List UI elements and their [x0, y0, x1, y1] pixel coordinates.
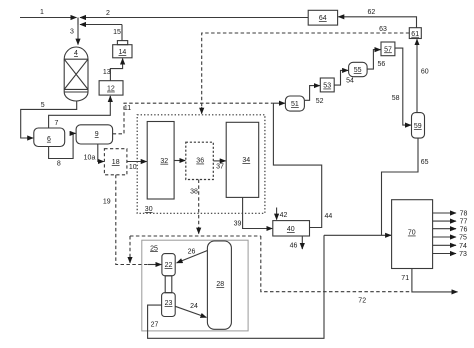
unit 34 [226, 122, 259, 197]
unit 55 [349, 62, 368, 76]
unit 53 [320, 78, 334, 92]
unit 70 [392, 200, 433, 269]
wire stream 8 [49, 133, 74, 158]
svg-text:13: 13 [103, 69, 111, 76]
svg-text:46: 46 [290, 242, 298, 249]
wire stream 78 [433, 212, 456, 214]
wire stream 7 [49, 96, 111, 128]
svg-text:44: 44 [325, 213, 333, 220]
svg-text:10a: 10a [84, 155, 96, 162]
svg-text:70: 70 [408, 230, 416, 237]
svg-text:8: 8 [57, 160, 61, 167]
svg-text:19: 19 [103, 199, 111, 206]
compressor 22 [162, 254, 175, 276]
wire stream 60 [416, 39, 418, 112]
column vessel 4 [64, 47, 88, 101]
svg-text:32: 32 [160, 158, 168, 165]
unit 57 [381, 42, 395, 56]
svg-text:7: 7 [54, 120, 58, 127]
cooler 51 [285, 96, 304, 111]
wire stream 1 [20, 17, 77, 19]
wire stream 13 [110, 59, 122, 81]
accumulator 59 [412, 113, 425, 139]
wire stream 54 [334, 70, 348, 85]
svg-text:36: 36 [196, 158, 204, 165]
wire stream 10 [127, 161, 147, 163]
svg-text:15: 15 [113, 29, 121, 36]
svg-text:52: 52 [316, 98, 324, 105]
dashed connector top [130, 235, 261, 237]
svg-text:11: 11 [124, 105, 131, 112]
svg-text:54: 54 [346, 78, 354, 85]
svg-text:57: 57 [384, 46, 392, 53]
wire stream 46 [301, 236, 303, 249]
wire feed into 70 [324, 234, 391, 236]
wire stream 3 [77, 18, 79, 45]
unit 14 [113, 45, 132, 58]
wire stream 76 [433, 228, 456, 230]
wire stream 52 [304, 86, 319, 101]
svg-text:71: 71 [401, 275, 409, 282]
unit 36 dotted box [186, 142, 214, 179]
svg-text:65: 65 [421, 159, 429, 166]
wire stream 38 dashed [198, 180, 200, 229]
svg-text:9: 9 [95, 131, 99, 138]
svg-text:24: 24 [190, 303, 198, 310]
wire stream 77 [433, 220, 456, 222]
svg-text:42: 42 [280, 212, 288, 219]
unit 40 [273, 221, 310, 236]
engine 28 [207, 241, 231, 329]
svg-text:56: 56 [378, 61, 386, 68]
wire stream 10a [98, 144, 104, 162]
wire stream 75 [433, 236, 456, 238]
svg-text:5: 5 [41, 102, 45, 109]
shaft 22-23 [165, 276, 172, 293]
wire stream 58 [395, 48, 411, 125]
wire stream 19 dashed [116, 175, 154, 265]
wire stream 37 [213, 160, 225, 162]
svg-text:27: 27 [151, 321, 159, 328]
wire stream 62 [338, 17, 416, 28]
wire stream 65 [382, 138, 419, 235]
wire stream 44 [273, 103, 321, 227]
svg-text:37: 37 [216, 164, 224, 171]
svg-text:3: 3 [70, 29, 74, 36]
svg-text:73: 73 [459, 251, 467, 258]
unit 18 dashed box [104, 149, 127, 175]
svg-text:76: 76 [460, 226, 468, 233]
unit 64 [308, 10, 337, 25]
svg-text:39: 39 [234, 221, 242, 228]
svg-text:14: 14 [119, 49, 127, 56]
svg-text:72: 72 [358, 298, 366, 305]
wire 23 outlet to 70 [148, 235, 324, 338]
unit 32 [147, 122, 174, 200]
wire stream 5 [21, 101, 77, 138]
svg-text:60: 60 [421, 69, 429, 76]
svg-text:4: 4 [74, 50, 78, 57]
wire stream 63 dashed [202, 33, 410, 108]
node junction feed [77, 18, 79, 25]
svg-text:74: 74 [459, 243, 467, 250]
svg-text:34: 34 [242, 157, 250, 164]
svg-text:75: 75 [459, 235, 467, 242]
wire stream 73 [433, 253, 456, 255]
svg-text:30: 30 [145, 206, 153, 213]
wire stream 56 [367, 50, 380, 70]
svg-text:77: 77 [460, 219, 468, 226]
dashed drop to 19 junction [129, 236, 131, 256]
module boundary 25 27 [142, 240, 248, 331]
wire stream 15 [121, 25, 123, 41]
svg-text:6: 6 [47, 136, 51, 143]
wire stream 24 [175, 306, 206, 317]
wire stream 11 dashed [113, 103, 273, 134]
svg-text:12: 12 [107, 86, 115, 93]
svg-text:23: 23 [165, 300, 173, 307]
svg-text:55: 55 [354, 67, 362, 74]
wire stream 2 [80, 17, 308, 19]
svg-text:38: 38 [190, 189, 198, 196]
svg-text:28: 28 [216, 281, 224, 288]
unit 12 [99, 81, 123, 95]
wire stream 42 [276, 208, 278, 220]
svg-text:61: 61 [411, 31, 419, 38]
wire 32 to 36 [174, 160, 185, 162]
svg-text:63: 63 [379, 26, 387, 33]
svg-text:22: 22 [165, 262, 173, 269]
boundary 30 dotted [137, 115, 265, 214]
svg-text:25: 25 [150, 245, 158, 252]
turbine 23 [162, 293, 176, 317]
svg-text:62: 62 [368, 9, 376, 16]
svg-text:40: 40 [287, 226, 295, 233]
wire stream 26 [177, 251, 208, 263]
svg-text:59: 59 [414, 123, 422, 130]
svg-text:2: 2 [106, 10, 110, 17]
svg-text:78: 78 [460, 211, 468, 218]
svg-text:53: 53 [323, 83, 331, 90]
svg-text:58: 58 [392, 95, 400, 102]
svg-text:26: 26 [188, 249, 196, 256]
separator 6 [34, 128, 65, 147]
unit 61 [409, 28, 421, 39]
svg-text:1: 1 [40, 9, 44, 16]
dashed drop right and stream 72 [261, 236, 412, 292]
svg-text:10: 10 [129, 164, 137, 171]
svg-text:18: 18 [112, 159, 120, 166]
wire stream 74 [433, 244, 456, 246]
wire stream 71 [412, 269, 458, 292]
separator 9 [76, 125, 113, 144]
wire stream 39 [243, 197, 273, 228]
svg-text:64: 64 [319, 15, 327, 22]
svg-text:51: 51 [291, 101, 299, 108]
